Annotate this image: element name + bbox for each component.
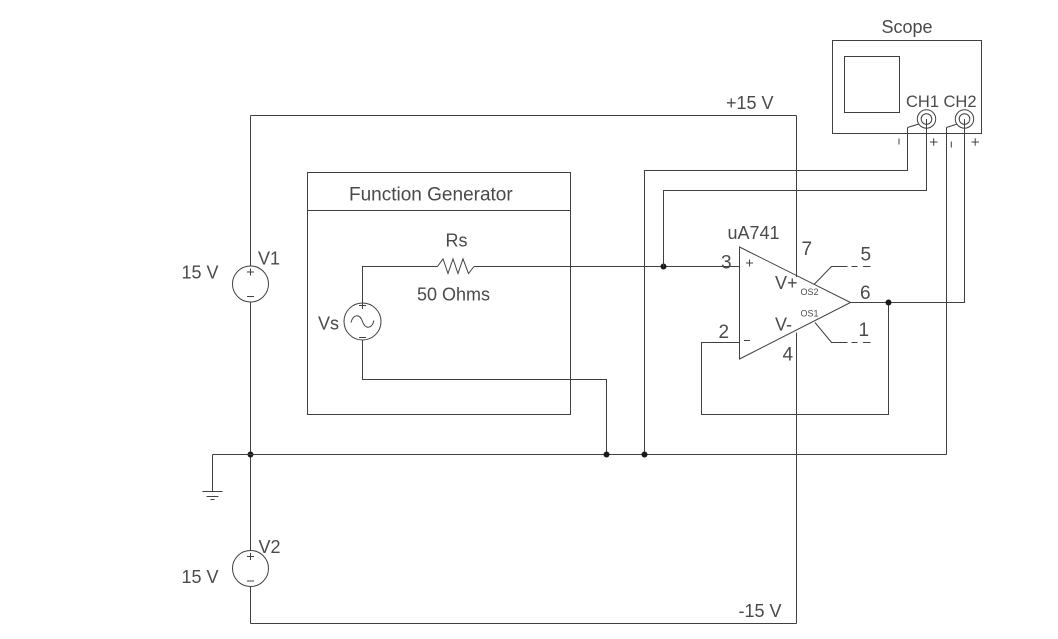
V2 plus mark <box>247 553 254 560</box>
wire CH1+ to pin3 node <box>664 119 927 267</box>
wire V1 bottom to ground rail <box>250 302 252 551</box>
wire op-amp pin2 <box>702 303 889 415</box>
svg-text:50 Ohms: 50 Ohms <box>417 285 490 305</box>
svg-text:CH2: CH2 <box>944 93 977 111</box>
source Vs <box>344 303 381 340</box>
pin1 offset stub <box>815 323 871 343</box>
wire resistor to op-amp pin3 <box>474 266 740 268</box>
svg-text:Scope: Scope <box>882 17 933 37</box>
CH1 minus polarity tick <box>898 139 900 145</box>
svg-text:3: 3 <box>721 253 732 274</box>
pin5 offset stub <box>814 267 871 285</box>
wire left rail V1 top <box>250 116 252 267</box>
svg-text:+15 V: +15 V <box>726 93 774 113</box>
svg-text:2: 2 <box>719 322 730 343</box>
svg-text:OS1: OS1 <box>801 309 819 319</box>
wire CH2- to ground rail <box>946 128 948 455</box>
function generator title separator <box>308 210 571 212</box>
scope box <box>833 41 982 134</box>
node junction dot output <box>886 300 892 306</box>
op-amp plus input mark <box>746 260 753 267</box>
node junction dot ground-left <box>248 452 254 458</box>
connector CH1 outer ring <box>917 110 935 128</box>
svg-text:Rs: Rs <box>446 231 468 251</box>
svg-text:Vs: Vs <box>318 314 339 334</box>
svg-text:15 V: 15 V <box>182 263 219 283</box>
source V1 <box>233 266 269 302</box>
wire +15V top rail <box>251 115 797 117</box>
V1 minus mark <box>247 296 254 298</box>
Vs plus mark <box>359 302 366 309</box>
svg-text:OS2: OS2 <box>801 287 819 297</box>
svg-text:-15 V: -15 V <box>739 601 782 621</box>
svg-text:CH1: CH1 <box>906 93 939 111</box>
connector CH2 inner ring <box>959 114 970 125</box>
wire -15V bottom rail <box>251 623 797 625</box>
resistor Rs zigzag <box>438 259 475 274</box>
function generator box <box>308 173 571 415</box>
connector CH2 outer ring <box>955 110 973 128</box>
svg-text:V+: V+ <box>775 273 798 293</box>
svg-text:uA741: uA741 <box>728 223 780 243</box>
node junction dot Vs return on ground rail <box>604 452 610 458</box>
scope screen <box>845 57 900 113</box>
svg-text:6: 6 <box>860 283 871 304</box>
svg-text:1: 1 <box>859 320 870 341</box>
Vs minus mark <box>359 337 366 339</box>
wire CH1- to ground rail <box>645 128 908 455</box>
CH1 plus polarity mark <box>930 138 938 146</box>
node junction dot pin3/CH1+ <box>661 264 667 270</box>
svg-text:Function Generator: Function Generator <box>349 185 513 206</box>
CH2- stub diagonal at connector <box>947 124 958 128</box>
V2 minus mark <box>247 580 254 582</box>
svg-text:15 V: 15 V <box>182 567 219 587</box>
ground symbol <box>203 455 223 500</box>
wire output pin6 to CH2+ <box>851 119 965 303</box>
connector CH1 inner ring <box>921 114 932 125</box>
CH2 minus polarity tick <box>950 142 952 148</box>
svg-text:V1: V1 <box>258 249 280 269</box>
wire right rail pin4 segment <box>796 333 798 624</box>
Vs sine wave <box>351 316 374 327</box>
source V2 <box>233 551 269 587</box>
V1 plus mark <box>247 269 254 276</box>
wire right rail pin7 segment <box>796 116 798 278</box>
CH1- stub diagonal at connector <box>908 124 919 128</box>
op-amp U1 triangle <box>740 247 851 359</box>
wire V2 bottom to -15V rail <box>250 587 252 624</box>
svg-text:5: 5 <box>861 245 872 266</box>
svg-text:V-: V- <box>775 315 792 335</box>
ground rail wire <box>213 454 947 456</box>
wire Vs top to resistor <box>363 267 438 304</box>
svg-text:4: 4 <box>783 345 794 366</box>
CH2 plus polarity mark <box>972 138 980 146</box>
node junction dot CH1- on ground rail <box>642 452 648 458</box>
svg-text:7: 7 <box>802 239 813 260</box>
wire Vs bottom return <box>363 340 607 455</box>
op-amp minus input mark <box>744 340 750 342</box>
svg-text:V2: V2 <box>259 537 281 557</box>
